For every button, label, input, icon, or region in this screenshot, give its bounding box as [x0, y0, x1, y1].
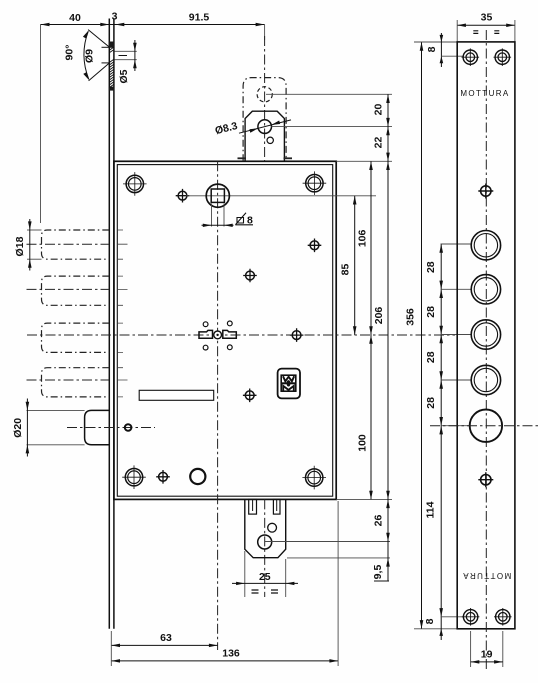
follower arrow left	[203, 224, 212, 227]
body outer rectangle	[114, 161, 336, 499]
tab centerline extension top	[264, 25, 266, 41]
arrow 114 bottom	[439, 608, 443, 617]
arrow 100 bottom	[369, 491, 373, 500]
arrow 35 right	[506, 24, 515, 28]
bottom tab big hole	[258, 535, 272, 549]
screw right of keyhole	[290, 328, 304, 342]
arrow at tab centerline	[256, 23, 265, 27]
bolt 2 centerline	[27, 288, 110, 290]
arc arrow bottom	[83, 72, 89, 80]
plate top extension line	[414, 41, 457, 43]
prong left inner line	[252, 500, 254, 511]
dimension 356 line	[421, 42, 423, 629]
arrow 20 bottom	[386, 118, 390, 127]
bolt 3 phantom	[42, 323, 110, 352]
plate screw top-right	[494, 48, 512, 66]
countersink hatching upper	[109, 47, 114, 53]
plate corner extension left	[456, 20, 458, 42]
arrows at c2	[439, 281, 443, 298]
svg-text:63: 63	[160, 632, 172, 644]
dia5 hole extension line top	[115, 50, 137, 52]
svg-text:85: 85	[339, 264, 351, 276]
equals mark right	[271, 590, 278, 593]
svg-text:35: 35	[481, 12, 493, 24]
chain leader c4	[441, 379, 472, 381]
plate screw top-left	[462, 48, 480, 66]
chain leader c5	[441, 425, 471, 427]
horizontal keyhole centerline	[27, 334, 455, 336]
arrow 63 right	[209, 644, 218, 648]
tab hole dia8.3	[258, 120, 272, 134]
arrow 136 right	[329, 659, 338, 663]
arrow 206 bottom	[386, 491, 390, 500]
corner screw bottom-left	[122, 465, 146, 489]
arrow 356 bottom	[420, 620, 424, 629]
body vertical centerline	[217, 161, 219, 650]
svg-text:28: 28	[425, 351, 437, 363]
dimension 19 extension right	[502, 631, 504, 667]
dia5 arrow top	[133, 43, 137, 52]
svg-text:91.5: 91.5	[189, 12, 210, 24]
equals mark top right	[494, 31, 499, 34]
arrow 22 top	[386, 127, 390, 136]
dimension 25 line	[232, 582, 298, 584]
bottom tab outline	[245, 499, 286, 557]
bolt 4 centerline	[27, 379, 110, 381]
dimension 25 extension right	[285, 559, 287, 597]
countersink dark cap bottom	[109, 87, 115, 91]
arrow 206 top	[386, 161, 390, 170]
arrow 9.5	[386, 558, 390, 567]
keyhole center circle	[214, 331, 222, 339]
square symbol	[235, 213, 253, 225]
dimension 25 extension left	[244, 551, 246, 597]
follower outer circle	[206, 184, 229, 207]
dia20 extension line bottom	[27, 444, 85, 446]
small ring on latch line	[125, 424, 132, 431]
latch bolt	[85, 410, 110, 444]
svg-text:8: 8	[426, 46, 438, 52]
screw bottom left small	[156, 470, 170, 484]
dimension 85 line	[354, 196, 356, 335]
dimension 40 extension line left	[40, 25, 42, 224]
countersink dark cone section	[109, 42, 115, 48]
extension line body right bottom	[337, 501, 339, 666]
tab bottom extension right	[287, 557, 390, 559]
arrow 25 left	[236, 582, 245, 585]
follower leader line	[186, 195, 376, 197]
dia5 dimension line	[134, 40, 136, 71]
chain leader c1	[441, 243, 472, 245]
dia20 arrow bottom	[26, 445, 30, 454]
dia8.3 arrow right	[271, 121, 280, 125]
svg-text:28: 28	[425, 397, 437, 409]
screw lower middle	[243, 389, 257, 403]
svg-text:19: 19	[481, 649, 493, 661]
logo mark M bottom	[283, 386, 294, 391]
top screws leader	[441, 55, 464, 57]
dimension 63 line	[111, 644, 217, 646]
bottom tab small hole	[268, 523, 277, 532]
bottom tab prong right	[273, 499, 280, 514]
screw near follower	[176, 189, 190, 203]
dia18 extension line top	[27, 229, 42, 231]
dimension 35 line	[457, 24, 515, 26]
keyhole small circle bl	[203, 345, 208, 350]
logo center ellipse	[287, 380, 291, 386]
arrow 356 top	[420, 42, 424, 51]
faceplate side view right line	[113, 19, 115, 629]
logo plate inner	[281, 375, 296, 391]
follower square extension lines	[212, 204, 225, 227]
plain circle bottom	[190, 469, 205, 484]
arrow 8 top	[440, 35, 444, 42]
prong right inner line	[276, 500, 278, 511]
leader from big hole	[265, 541, 390, 543]
arc arrow top	[83, 31, 89, 39]
plate circle c4	[471, 365, 500, 394]
screw mid upper	[243, 269, 257, 283]
right faceplate centerline	[485, 30, 487, 672]
countersink mouth tick upper	[102, 46, 110, 48]
follower dimension line 8	[202, 224, 234, 226]
svg-text:90°: 90°	[64, 45, 76, 61]
equals mark left	[252, 590, 259, 593]
arrow 20 top	[386, 94, 390, 103]
screw right upper	[308, 239, 322, 253]
body top extension line right	[336, 160, 392, 162]
svg-text:206: 206	[373, 307, 385, 325]
svg-text:MOTTURA: MOTTURA	[460, 89, 509, 98]
dimension 19 line	[471, 661, 503, 663]
arrow 19 right	[494, 660, 503, 664]
dia20 dimension line	[26, 399, 28, 457]
chain leader c2	[441, 288, 472, 290]
tab centerline upper	[264, 36, 266, 161]
plate screw lower middle	[478, 472, 493, 487]
arrow 25 right	[286, 582, 295, 585]
follower arrow right	[224, 224, 233, 227]
dia5 arrow bottom	[133, 60, 137, 68]
plate screw bottom-left	[462, 608, 480, 626]
90 degree dimension arc	[84, 31, 89, 79]
svg-text:100: 100	[357, 434, 369, 452]
c5 horizontal centerline	[430, 425, 538, 427]
arrow 85 bottom	[353, 326, 357, 335]
arrows at c4	[439, 371, 443, 388]
keyhole small circle tl	[203, 322, 208, 327]
logo mid bar	[281, 382, 296, 384]
keyhole wing right	[223, 330, 237, 338]
chain dimension line 28s and 114	[440, 244, 442, 640]
arrow 8 bottom-right	[439, 629, 443, 636]
plate corner extension right	[514, 20, 516, 42]
svg-text:136: 136	[222, 648, 240, 660]
svg-text:28: 28	[425, 261, 437, 273]
arrow 26 top	[386, 499, 390, 508]
dia5 hole extension line bottom	[115, 59, 137, 61]
faceplate side view left line	[108, 19, 110, 629]
arrows at c3	[439, 326, 443, 343]
countersink hatching lower	[109, 59, 114, 87]
arrow 106 top	[369, 161, 373, 170]
arrow at faceplate left	[100, 23, 109, 27]
corner screw top-right	[303, 171, 327, 195]
svg-text:106: 106	[356, 229, 368, 247]
svg-text:20: 20	[373, 104, 385, 116]
bottom screws leader	[441, 616, 465, 618]
arrow at 40 left	[41, 23, 50, 27]
corner screw top-left	[123, 172, 147, 196]
bottom tab prong left	[249, 499, 257, 514]
arrow 106 bottom	[369, 326, 373, 335]
keyhole small circle tr	[227, 321, 232, 326]
dia20 extension line top	[27, 409, 85, 411]
dia8.3 arrow left	[249, 128, 258, 132]
top tab dashed circle	[257, 87, 272, 102]
top tab solid outline	[245, 111, 284, 161]
dia18 arrow bottom	[28, 259, 32, 268]
svg-text:40: 40	[69, 12, 81, 24]
dimension 19 extension left	[470, 631, 472, 667]
arrow 100 top	[369, 335, 373, 344]
extension line faceplate bottom	[110, 631, 112, 666]
dimension 8 top-right line	[440, 33, 442, 67]
top tab phantom outline	[243, 78, 286, 162]
arrow 85 top	[353, 196, 357, 205]
arrows at c5	[439, 417, 443, 434]
body inner rectangle	[117, 165, 332, 497]
logo plate outer	[278, 369, 300, 399]
arrow 8 bottom	[440, 56, 444, 63]
svg-text:25: 25	[259, 571, 271, 583]
svg-text:22: 22	[372, 137, 384, 149]
latch centerline	[67, 427, 155, 429]
dimension line top chain 40/3/91.5	[41, 24, 265, 26]
plate circle c5 large	[470, 410, 502, 442]
svg-text:8: 8	[424, 618, 436, 624]
tab foot mark left	[238, 157, 247, 159]
plate bottom extension line	[414, 628, 457, 630]
body edge ticks for bolts	[117, 230, 127, 397]
bolt 1 phantom	[42, 230, 110, 259]
tab centerline lower	[264, 499, 266, 597]
bolt 4 phantom	[42, 368, 110, 397]
keyhole wing left	[199, 330, 213, 338]
dia18 arrow top	[28, 221, 32, 230]
plate screw bottom-right	[494, 608, 512, 626]
plate circle c1	[471, 231, 500, 260]
arrow 22 bottom	[386, 153, 390, 162]
plate screw upper middle	[478, 184, 493, 199]
dia5 hole center tick	[119, 55, 128, 57]
leader from tab hole	[272, 126, 393, 128]
arrow 63 left	[111, 644, 120, 648]
countersink mouth tick lower	[102, 62, 110, 64]
dimension 106/100 line	[370, 161, 372, 499]
svg-text:8: 8	[247, 214, 253, 226]
dia8.3 diagonal leader line	[239, 120, 291, 133]
9.5 underline tick	[374, 580, 389, 582]
tab foot mark right	[284, 157, 293, 159]
equals mark top left	[473, 31, 478, 34]
svg-text:MOTTURA: MOTTURA	[462, 571, 511, 580]
plate circle c2	[471, 275, 500, 304]
body bottom extension line right	[336, 498, 392, 500]
arrow 28a up	[439, 244, 443, 253]
countersink cone edge upper	[88, 30, 109, 48]
svg-text:26: 26	[373, 515, 385, 527]
countersink cone edge lower	[89, 63, 110, 81]
plate circle c3	[471, 320, 500, 349]
svg-text:9,5: 9,5	[372, 565, 384, 580]
thin rectangle plate	[139, 390, 214, 400]
leader from dashed circle	[266, 93, 392, 95]
svg-text:Ø20: Ø20	[12, 418, 24, 438]
dimension 20/22/206/26/9.5 line	[387, 94, 389, 581]
chain leader c3	[441, 334, 472, 336]
svg-text:28: 28	[425, 306, 437, 318]
logo mark W top	[283, 376, 294, 381]
corner screw bottom-right	[302, 466, 326, 490]
keyhole center dot	[216, 334, 218, 336]
arrow 26 bottom	[386, 533, 390, 542]
bolt 1 centerline	[27, 243, 110, 245]
arrow 35 left	[457, 24, 466, 28]
right faceplate outline	[457, 42, 515, 629]
bolt 2 phantom	[42, 276, 110, 305]
dia18 extension line bottom	[27, 258, 42, 260]
dia18 dimension line	[29, 219, 31, 271]
keyhole small circle br	[227, 345, 232, 350]
tab small hole	[267, 137, 273, 143]
svg-text:356: 356	[405, 308, 417, 326]
arrow at faceplate right	[115, 23, 124, 27]
dia20 arrow top	[26, 402, 30, 411]
arrow 136 left	[111, 659, 120, 663]
svg-text:Ø9: Ø9	[84, 49, 96, 63]
arrow 19 left	[471, 660, 480, 664]
svg-text:Ø5: Ø5	[118, 69, 130, 83]
follower square hole	[211, 189, 224, 202]
svg-text:114: 114	[425, 501, 437, 518]
svg-text:Ø18: Ø18	[14, 236, 26, 256]
dimension 136 line	[111, 660, 338, 662]
